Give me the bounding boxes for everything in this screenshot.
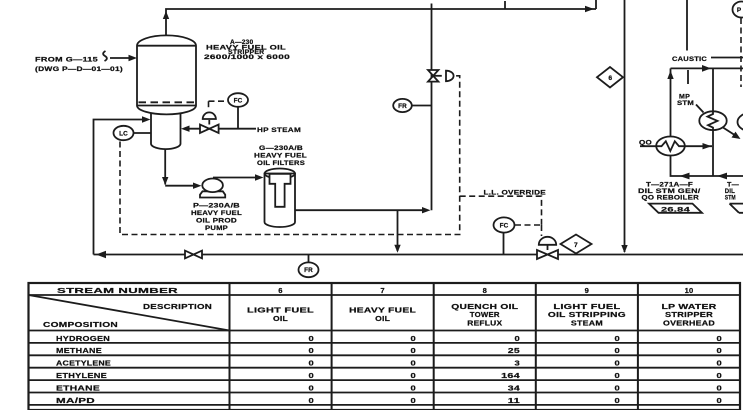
svg-text:26.84: 26.84 bbox=[661, 206, 690, 213]
svg-text:OIL: OIL bbox=[273, 316, 289, 323]
svg-text:0: 0 bbox=[411, 383, 417, 392]
svg-text:0: 0 bbox=[717, 383, 723, 392]
svg-text:6: 6 bbox=[608, 75, 612, 82]
svg-text:ETHANE: ETHANE bbox=[56, 383, 100, 392]
svg-text:OVERHEAD: OVERHEAD bbox=[663, 320, 715, 327]
svg-text:FC: FC bbox=[234, 97, 243, 104]
svg-text:METHANE: METHANE bbox=[56, 346, 102, 355]
svg-text:LP WATER: LP WATER bbox=[662, 304, 717, 311]
svg-text:OIL FILTERS: OIL FILTERS bbox=[257, 160, 305, 167]
svg-text:STRIPPER: STRIPPER bbox=[665, 312, 713, 319]
svg-text:STM: STM bbox=[725, 194, 736, 201]
svg-text:MA/PD: MA/PD bbox=[56, 396, 95, 405]
svg-text:L.L. OVERRIDE: L.L. OVERRIDE bbox=[484, 189, 547, 196]
svg-text:FR: FR bbox=[398, 103, 407, 110]
svg-text:0: 0 bbox=[615, 359, 621, 368]
svg-text:STEAM: STEAM bbox=[571, 320, 603, 327]
svg-text:0: 0 bbox=[411, 396, 417, 405]
svg-text:0: 0 bbox=[309, 346, 315, 355]
svg-text:0: 0 bbox=[615, 383, 621, 392]
svg-text:FC: FC bbox=[500, 222, 509, 229]
svg-text:8: 8 bbox=[483, 286, 487, 295]
svg-text:0: 0 bbox=[411, 334, 417, 343]
svg-text:G—230A/B: G—230A/B bbox=[259, 145, 303, 152]
svg-text:OIL STRIPPING: OIL STRIPPING bbox=[548, 312, 627, 319]
svg-text:COMPOSITION: COMPOSITION bbox=[43, 320, 118, 329]
svg-text:0: 0 bbox=[615, 346, 621, 355]
svg-text:0: 0 bbox=[309, 383, 315, 392]
svg-text:QO: QO bbox=[639, 139, 652, 146]
svg-text:0: 0 bbox=[309, 396, 315, 405]
svg-text:P: P bbox=[737, 7, 742, 14]
svg-text:0: 0 bbox=[717, 371, 723, 380]
svg-text:REFLUX: REFLUX bbox=[467, 320, 502, 327]
svg-text:0: 0 bbox=[615, 371, 621, 380]
svg-text:0: 0 bbox=[615, 396, 621, 405]
svg-text:ETHYLENE: ETHYLENE bbox=[56, 371, 107, 380]
svg-text:FR: FR bbox=[304, 267, 313, 274]
svg-text:P—230A/B: P—230A/B bbox=[193, 203, 240, 210]
svg-text:0: 0 bbox=[615, 334, 621, 343]
svg-text:STREAM NUMBER: STREAM NUMBER bbox=[57, 286, 179, 295]
svg-text:OIL PROD: OIL PROD bbox=[196, 218, 237, 225]
svg-text:STM: STM bbox=[677, 100, 694, 107]
svg-text:0: 0 bbox=[309, 334, 315, 343]
svg-text:9: 9 bbox=[585, 286, 589, 295]
svg-text:2600/1000 x 6000: 2600/1000 x 6000 bbox=[204, 54, 291, 61]
svg-text:CAUSTIC: CAUSTIC bbox=[672, 56, 707, 63]
svg-text:HP STEAM: HP STEAM bbox=[257, 127, 301, 134]
svg-text:0: 0 bbox=[717, 334, 723, 343]
svg-text:0: 0 bbox=[515, 334, 521, 343]
svg-text:FROM G—115: FROM G—115 bbox=[35, 57, 99, 64]
svg-text:7: 7 bbox=[574, 242, 578, 249]
svg-text:0: 0 bbox=[717, 346, 723, 355]
svg-text:QUENCH OIL: QUENCH OIL bbox=[451, 304, 519, 311]
svg-text:HYDROGEN: HYDROGEN bbox=[56, 334, 110, 343]
svg-text:DESCRIPTION: DESCRIPTION bbox=[143, 302, 212, 311]
svg-text:25: 25 bbox=[508, 346, 521, 355]
svg-text:LIGHT FUEL: LIGHT FUEL bbox=[553, 304, 621, 311]
svg-text:34: 34 bbox=[508, 383, 521, 392]
svg-text:0: 0 bbox=[309, 371, 315, 380]
svg-text:HEAVY FUEL: HEAVY FUEL bbox=[191, 210, 242, 217]
svg-text:0: 0 bbox=[411, 371, 417, 380]
svg-text:0: 0 bbox=[411, 346, 417, 355]
svg-text:6: 6 bbox=[278, 286, 282, 295]
svg-text:HEAVY FUEL: HEAVY FUEL bbox=[254, 153, 307, 160]
svg-text:QO REBOILER: QO REBOILER bbox=[642, 194, 700, 201]
svg-text:164: 164 bbox=[501, 371, 521, 380]
svg-text:TOWER: TOWER bbox=[470, 312, 500, 319]
svg-text:PUMP: PUMP bbox=[205, 225, 228, 232]
svg-text:0: 0 bbox=[717, 359, 723, 368]
svg-text:7: 7 bbox=[380, 286, 384, 295]
svg-text:3: 3 bbox=[515, 359, 521, 368]
svg-text:10: 10 bbox=[685, 286, 694, 295]
svg-text:ACETYLENE: ACETYLENE bbox=[56, 359, 111, 368]
svg-text:LIGHT FUEL: LIGHT FUEL bbox=[247, 308, 315, 315]
svg-text:0: 0 bbox=[717, 396, 723, 405]
svg-text:0: 0 bbox=[309, 359, 315, 368]
svg-text:0: 0 bbox=[411, 359, 417, 368]
svg-text:11: 11 bbox=[508, 396, 521, 405]
svg-text:HEAVY FUEL: HEAVY FUEL bbox=[349, 308, 417, 315]
svg-text:LC: LC bbox=[119, 130, 128, 137]
svg-text:OIL: OIL bbox=[375, 316, 391, 323]
svg-text:(DWG P—D—01—01): (DWG P—D—01—01) bbox=[35, 66, 123, 73]
